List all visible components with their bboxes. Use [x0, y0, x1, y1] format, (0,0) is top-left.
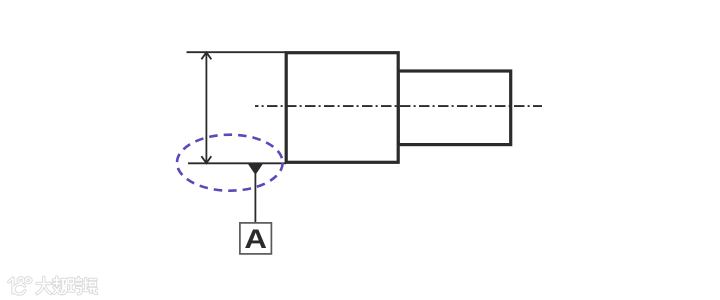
centerline (dash-dot axis) — [255, 105, 542, 107]
dimension line — [205, 52, 207, 163]
arrowhead top — [201, 52, 211, 59]
datum triangle — [248, 163, 264, 175]
shaft small diameter section — [398, 71, 511, 145]
shaft large diameter section — [286, 53, 398, 163]
watermark logo — [9, 278, 31, 294]
svg-text:A: A — [244, 225, 267, 254]
arrowhead bottom — [201, 156, 211, 163]
datum label A — [244, 225, 267, 254]
extension line bottom (datum target line) — [188, 162, 286, 164]
datum leader wire — [254, 174, 256, 223]
extension line top — [187, 51, 287, 53]
datum frame box — [240, 223, 272, 254]
highlight ellipse — [177, 135, 283, 191]
watermark text (stylized CJK strokes) — [37, 277, 97, 294]
